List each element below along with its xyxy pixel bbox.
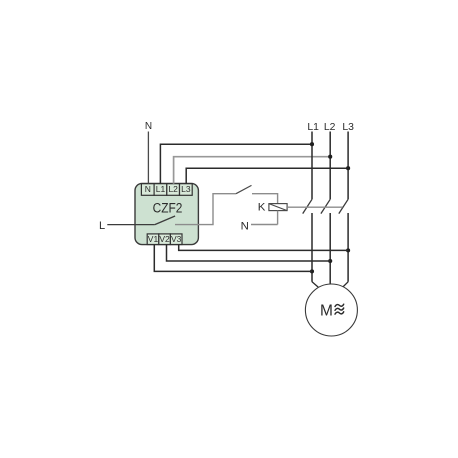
phase line L2 lower [329, 213, 331, 284]
svg-text:M: M [320, 302, 333, 319]
wire N coil return [251, 224, 278, 226]
terminal N [141, 184, 154, 196]
node V1-L1 junction [310, 269, 314, 273]
wire L1 terminal to phase line [160, 144, 312, 184]
svg-text:CZF2: CZF2 [153, 201, 183, 216]
terminal V2 [159, 234, 171, 245]
terminal L2 [167, 184, 180, 196]
motor tilde symbol [335, 304, 344, 314]
wire V2 output [167, 245, 331, 262]
switch CZF2 internal contact blade [155, 216, 175, 225]
node L3 top junction [346, 166, 350, 170]
terminal V1 [147, 234, 159, 245]
switch K auxiliary contact blade [236, 185, 252, 193]
node V2-L2 junction [328, 259, 332, 263]
device CZF2 body [135, 183, 198, 244]
wire V1 output [154, 245, 312, 272]
wire L3 terminal to phase line [186, 168, 348, 184]
wire V3 output [179, 245, 348, 251]
svg-text:L2: L2 [168, 184, 178, 194]
contactor contact K pole L2 [321, 199, 330, 213]
terminal L3 [180, 184, 193, 196]
svg-text:K: K [258, 202, 266, 214]
wire K contact to coil [252, 194, 278, 204]
relay coil K [269, 204, 287, 211]
wire coil to N [277, 211, 279, 225]
wire L input [107, 224, 155, 226]
contactor contact K pole L3 [339, 199, 348, 213]
wire L2 terminal to phase line (gray) [174, 157, 331, 184]
wire N input [147, 132, 149, 184]
node V3-L3 junction [346, 248, 350, 252]
svg-text:N: N [241, 220, 249, 232]
node L2 top junction [328, 155, 332, 159]
svg-text:V1: V1 [148, 234, 159, 244]
svg-text:V2: V2 [159, 234, 170, 244]
svg-text:N: N [145, 184, 151, 194]
phase line L3 lower [347, 213, 349, 282]
svg-text:L3: L3 [181, 184, 191, 194]
svg-text:L1: L1 [307, 122, 319, 133]
contactor contact K pole L1 [303, 199, 312, 213]
phase line L2 upper [329, 132, 331, 200]
svg-text:L: L [99, 220, 105, 232]
motor M body [305, 284, 357, 336]
svg-text:N: N [145, 121, 152, 132]
node L1 top junction [310, 142, 314, 146]
terminal V3 [170, 234, 182, 245]
wire L1 to motor [312, 282, 318, 287]
svg-text:L1: L1 [156, 184, 166, 194]
svg-text:V3: V3 [171, 234, 182, 244]
phase line L3 upper [347, 132, 349, 200]
phase line L1 upper [311, 132, 313, 200]
wire L3 to motor [343, 282, 348, 287]
phase line L1 lower [311, 213, 313, 282]
wire switch output to control circuit [175, 194, 236, 225]
mechanical linkage coil to contactor [287, 206, 342, 208]
terminal L1 [154, 184, 167, 196]
